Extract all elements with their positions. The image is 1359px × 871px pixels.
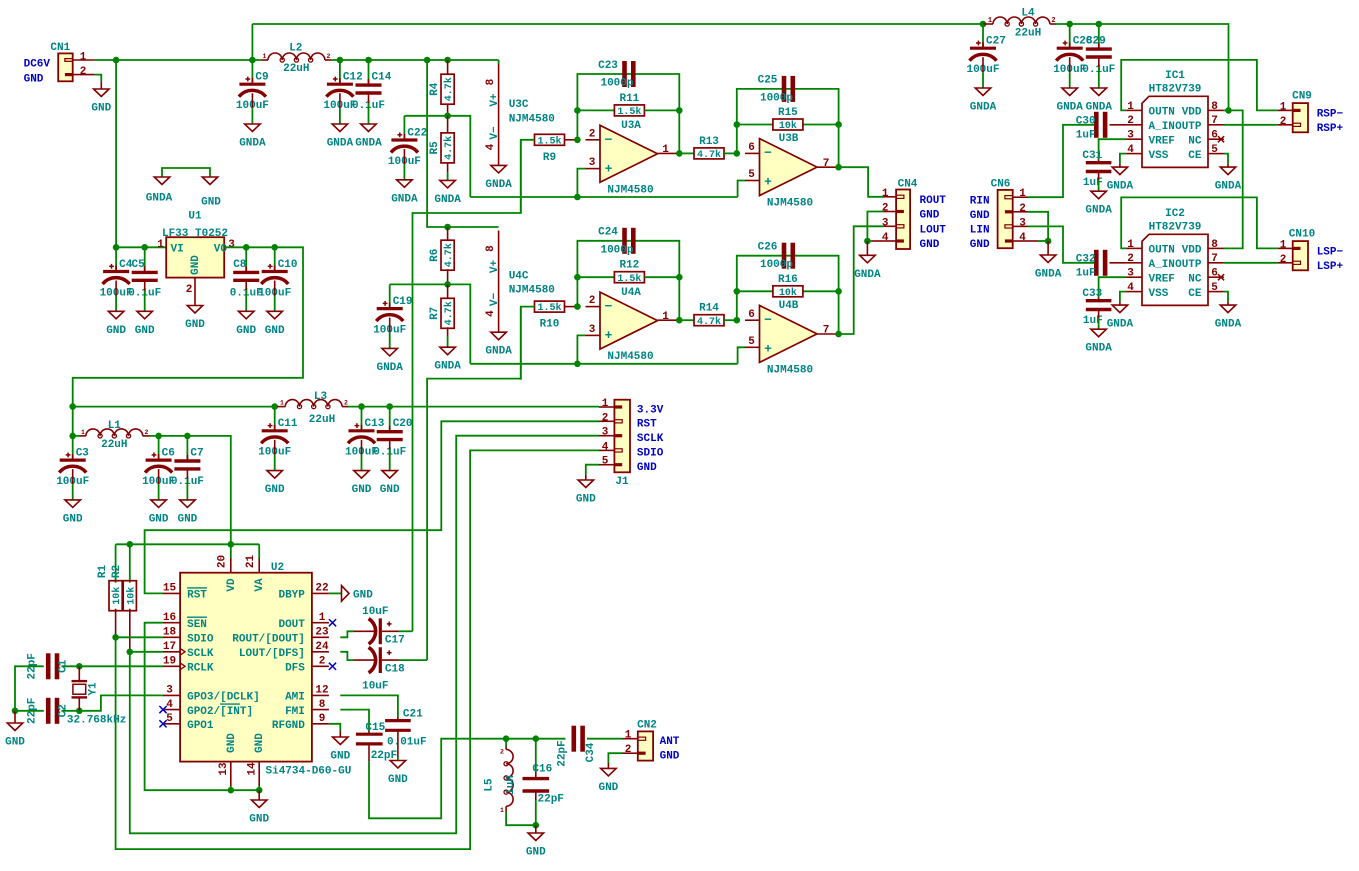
svg-text:SDIO: SDIO [637,448,664,460]
svg-text:J1: J1 [615,476,629,488]
svg-text:C23: C23 [598,60,618,72]
svg-text:GNDA: GNDA [1107,319,1134,331]
svg-text:C10: C10 [278,259,298,271]
svg-text:GND: GND [106,325,126,337]
svg-text:FMI: FMI [285,706,305,718]
svg-text:4: 4 [602,441,609,453]
svg-text:OUTN: OUTN [1149,245,1175,257]
svg-text:1.5k: 1.5k [537,135,561,147]
svg-text:C33: C33 [1082,288,1102,300]
svg-text:V+: V+ [489,260,501,274]
svg-text:6: 6 [1211,268,1218,280]
svg-text:2: 2 [344,400,348,407]
svg-text:R16: R16 [778,274,798,286]
svg-text:GNDA: GNDA [854,269,881,281]
svg-text:GND: GND [380,484,400,496]
svg-text:VI: VI [171,244,184,256]
svg-text:C9: C9 [255,72,268,84]
svg-text:+: + [764,342,772,357]
svg-text:U1: U1 [188,211,202,223]
svg-text:GND: GND [330,751,350,763]
svg-text:5: 5 [748,336,755,348]
svg-text:4: 4 [1127,144,1134,156]
svg-text:2: 2 [625,744,632,756]
svg-text:GND: GND [177,513,197,525]
svg-text:U2: U2 [271,562,284,574]
svg-text:10uF: 10uF [362,606,388,618]
svg-text:C7: C7 [190,447,203,459]
svg-text:VREF: VREF [1149,273,1175,285]
svg-text:1: 1 [157,239,164,251]
svg-text:LOUT/[DFS]: LOUT/[DFS] [239,648,305,660]
svg-text:R2: R2 [111,565,123,578]
svg-text:GNDA: GNDA [485,179,512,191]
svg-text:6: 6 [748,309,755,321]
svg-text:C15: C15 [365,722,385,734]
svg-text:GND: GND [24,73,44,85]
svg-text:GND: GND [236,325,256,337]
svg-text:GND: GND [149,513,169,525]
svg-text:L3: L3 [314,391,328,403]
svg-text:10k: 10k [111,587,123,605]
svg-text:GND: GND [249,814,269,826]
svg-text:HT82V739: HT82V739 [1149,221,1202,233]
svg-text:1.5k: 1.5k [537,302,561,314]
svg-text:GNDA: GNDA [1086,102,1113,114]
svg-text:C17: C17 [385,635,405,647]
svg-text:DC6V: DC6V [24,59,51,71]
svg-text:GND: GND [920,210,940,222]
svg-text:NJM4580: NJM4580 [767,198,813,210]
svg-text:C13: C13 [365,418,385,430]
svg-text:1: 1 [319,612,326,624]
svg-text:HT82V739: HT82V739 [1149,83,1202,95]
svg-text:+: + [764,175,772,190]
svg-text:C21: C21 [403,709,423,721]
svg-text:U4A: U4A [621,287,641,299]
svg-text:4.7k: 4.7k [697,149,721,161]
svg-text:VDD: VDD [1182,107,1202,119]
svg-text:GND: GND [63,513,83,525]
svg-text:8: 8 [1211,239,1218,251]
svg-text:NJM4580: NJM4580 [509,114,555,126]
svg-text:U3A: U3A [621,120,641,132]
svg-text:8: 8 [485,78,497,85]
svg-text:3: 3 [1127,268,1134,280]
svg-text:Si4734-D60-GU: Si4734-D60-GU [266,766,352,778]
svg-text:1000p: 1000p [760,259,793,271]
svg-text:10uF: 10uF [362,681,388,693]
svg-text:A_IN: A_IN [1149,121,1175,133]
svg-text:8: 8 [1211,101,1218,113]
svg-text:GND: GND [352,484,372,496]
svg-text:3: 3 [882,217,889,229]
svg-text:C6: C6 [162,447,175,459]
svg-text:1.5k: 1.5k [617,273,641,285]
svg-text:R7: R7 [429,307,441,320]
svg-text:GND: GND [576,494,596,506]
svg-text:GND: GND [190,255,202,275]
svg-text:GPO2/[INT]: GPO2/[INT] [187,706,253,718]
svg-text:U3C: U3C [509,99,529,111]
svg-text:1000p: 1000p [760,92,793,104]
svg-text:22uH: 22uH [283,63,309,75]
svg-text:1uF: 1uF [1083,315,1103,327]
svg-text:1000p: 1000p [600,244,633,256]
svg-text:GND: GND [201,197,221,209]
svg-text:2: 2 [589,128,596,140]
svg-text:2: 2 [1280,116,1287,128]
svg-text:DFS: DFS [285,663,305,675]
svg-text:U4C: U4C [509,271,529,283]
svg-text:C24: C24 [598,227,618,239]
svg-text:7: 7 [1211,253,1218,265]
svg-text:4.7k: 4.7k [443,243,455,267]
svg-text:1: 1 [263,53,267,60]
svg-text:V+: V+ [489,93,501,107]
svg-text:2: 2 [319,656,326,668]
svg-text:1.5k: 1.5k [617,106,641,118]
svg-text:22pF: 22pF [538,794,564,806]
svg-text:L1: L1 [108,420,122,432]
svg-text:4: 4 [1127,282,1134,294]
svg-text:2: 2 [145,429,149,436]
svg-text:ANT: ANT [660,736,680,748]
svg-text:5: 5 [1211,144,1218,156]
svg-text:22uH: 22uH [101,439,127,451]
svg-text:R15: R15 [778,107,798,119]
svg-text:GNDA: GNDA [376,362,403,374]
svg-text:1: 1 [602,398,609,410]
svg-text:1: 1 [1280,101,1287,113]
svg-text:GND: GND [226,733,238,753]
svg-text:2: 2 [80,66,87,78]
svg-text:GND: GND [637,462,657,474]
svg-text:5: 5 [748,169,755,181]
svg-text:GNDA: GNDA [355,138,382,150]
svg-text:7: 7 [1211,115,1218,127]
svg-text:GNDA: GNDA [239,138,266,150]
svg-text:1uF: 1uF [1076,130,1096,142]
svg-text:2: 2 [1051,17,1055,25]
svg-text:1: 1 [988,17,992,25]
svg-text:U3B: U3B [779,133,799,145]
svg-text:GND: GND [970,210,990,222]
svg-text:1: 1 [1127,239,1134,251]
svg-text:C5: C5 [132,259,146,271]
svg-text:RFGND: RFGND [272,720,305,732]
svg-text:R11: R11 [619,93,639,105]
svg-text:GNDA: GNDA [146,193,173,205]
svg-text:8: 8 [485,245,497,252]
svg-text:20: 20 [217,555,229,568]
svg-text:CN2: CN2 [637,720,657,732]
svg-text:3.3V: 3.3V [637,404,664,416]
svg-text:V−: V− [489,293,501,307]
svg-text:4.7k: 4.7k [443,136,455,160]
svg-text:GND: GND [135,325,155,337]
svg-text:4: 4 [166,699,173,711]
svg-text:LSP−: LSP− [1317,246,1344,258]
svg-text:2: 2 [1127,253,1134,265]
svg-text:GNDA: GNDA [1056,102,1083,114]
svg-text:23: 23 [315,627,329,639]
svg-text:1: 1 [500,807,504,814]
svg-text:LOUT: LOUT [920,225,947,237]
svg-text:GND: GND [920,239,940,251]
svg-text:1: 1 [1127,101,1134,113]
svg-text:NJM4580: NJM4580 [509,285,555,297]
svg-text:GND: GND [598,782,618,794]
svg-text:NJM4580: NJM4580 [607,184,653,196]
svg-text:16: 16 [163,612,176,624]
svg-text:RIN: RIN [970,195,990,207]
svg-text:VD: VD [226,578,238,592]
svg-text:4.7k: 4.7k [443,77,455,101]
svg-text:GNDA: GNDA [327,138,354,150]
svg-text:22uH: 22uH [1015,28,1041,40]
svg-text:18: 18 [163,627,177,639]
svg-text:IC1: IC1 [1165,70,1185,82]
svg-text:1: 1 [280,400,284,407]
svg-text:VREF: VREF [1149,135,1175,147]
svg-text:GNDA: GNDA [1215,181,1242,193]
svg-text:3: 3 [166,685,173,697]
svg-text:1: 1 [625,730,632,742]
svg-text:VSS: VSS [1149,288,1169,300]
svg-text:CN4: CN4 [898,179,918,191]
svg-text:ROUT/[DOUT]: ROUT/[DOUT] [232,634,305,646]
svg-text:1: 1 [81,429,85,436]
svg-text:VDD: VDD [1182,245,1202,257]
svg-text:19: 19 [163,656,176,668]
svg-text:R1: R1 [97,565,109,579]
svg-text:R12: R12 [619,260,639,272]
svg-text:2: 2 [1280,254,1287,266]
svg-text:GNDA: GNDA [391,193,418,205]
svg-text:2: 2 [500,749,504,756]
svg-text:LSP+: LSP+ [1317,261,1344,273]
svg-text:3: 3 [1127,130,1134,142]
svg-text:Y1: Y1 [88,682,100,696]
svg-text:13: 13 [218,762,230,776]
svg-text:4: 4 [882,232,889,244]
svg-text:U4B: U4B [779,300,799,312]
svg-text:C18: C18 [385,664,405,676]
svg-text:SEN: SEN [187,619,207,631]
svg-text:10k: 10k [779,120,797,132]
svg-text:R5: R5 [429,141,441,155]
svg-text:RST: RST [187,590,207,602]
svg-text:0.01uF: 0.01uF [387,737,427,749]
svg-text:NC: NC [1188,135,1202,147]
svg-text:1: 1 [1280,239,1287,251]
svg-text:GND: GND [526,847,546,859]
svg-text:GND: GND [265,325,285,337]
svg-text:R9: R9 [543,152,556,164]
svg-text:GNDA: GNDA [970,102,997,114]
svg-text:C8: C8 [233,259,247,271]
svg-text:GND: GND [353,589,373,601]
svg-text:12: 12 [315,685,328,697]
svg-text:22: 22 [315,583,328,595]
svg-text:+: + [605,328,613,343]
svg-text:1: 1 [80,51,87,63]
svg-text:CE: CE [1188,288,1202,300]
svg-text:15: 15 [163,583,177,595]
svg-text:CN9: CN9 [1292,91,1312,103]
svg-text:5: 5 [166,713,173,725]
svg-text:−: − [764,146,772,161]
svg-text:NJM4580: NJM4580 [607,351,653,363]
svg-text:C27: C27 [986,36,1006,48]
svg-text:VSS: VSS [1149,150,1169,162]
svg-text:3: 3 [228,239,235,251]
svg-text:4: 4 [1019,232,1026,244]
svg-text:GND: GND [91,103,111,115]
svg-text:GND: GND [185,319,205,331]
svg-text:1000p: 1000p [600,78,633,90]
svg-text:C19: C19 [393,296,413,308]
svg-text:GND: GND [265,484,285,496]
svg-text:6: 6 [1211,130,1218,142]
svg-text:1: 1 [882,188,889,200]
svg-text:RST: RST [637,419,657,431]
svg-text:GPO1: GPO1 [187,720,214,732]
svg-text:C22: C22 [407,127,427,139]
svg-text:SCLK: SCLK [637,433,664,445]
svg-text:DBYP: DBYP [278,590,305,602]
svg-text:R14: R14 [699,303,719,315]
svg-text:GNDA: GNDA [1035,269,1062,281]
svg-text:NJM4580: NJM4580 [767,364,813,376]
svg-text:L5: L5 [484,778,496,792]
svg-text:CN6: CN6 [991,178,1011,190]
svg-text:C34: C34 [585,742,597,762]
svg-text:4: 4 [485,143,497,150]
svg-text:GNDA: GNDA [1085,205,1112,217]
svg-text:5: 5 [1211,282,1218,294]
svg-text:7: 7 [823,158,830,170]
svg-text:1: 1 [662,311,669,323]
svg-text:L4: L4 [1021,8,1035,20]
svg-text:1uH: 1uH [505,775,517,795]
svg-text:LF33_T0252: LF33_T0252 [162,228,228,240]
svg-text:V−: V− [489,126,501,140]
svg-text:3: 3 [1019,217,1026,229]
svg-text:GNDA: GNDA [485,346,512,358]
svg-text:GND: GND [5,737,25,749]
svg-text:R6: R6 [429,249,441,262]
svg-text:VA: VA [254,578,266,592]
svg-text:22pF: 22pF [557,740,569,766]
svg-text:−: − [764,313,772,328]
svg-text:A_IN: A_IN [1149,259,1175,271]
svg-text:CE: CE [1188,150,1202,162]
svg-text:32.768kHz: 32.768kHz [67,715,126,727]
svg-text:NC: NC [1188,273,1202,285]
svg-text:+: + [605,161,613,176]
svg-text:GPO3/[DCLK]: GPO3/[DCLK] [187,692,260,704]
svg-text:RSP+: RSP+ [1317,123,1344,135]
svg-text:SCLK: SCLK [187,648,214,660]
svg-text:22pF: 22pF [371,750,397,762]
svg-text:4.7k: 4.7k [443,301,455,325]
svg-text:IC2: IC2 [1165,208,1185,220]
svg-text:GNDA: GNDA [1215,319,1242,331]
svg-text:C20: C20 [393,418,413,430]
svg-text:C26: C26 [758,242,778,254]
svg-text:GND: GND [388,774,408,786]
svg-text:GNDA: GNDA [434,361,461,373]
svg-text:2: 2 [1019,203,1026,215]
svg-text:10k: 10k [125,587,137,605]
svg-text:OUTP: OUTP [1175,259,1202,271]
svg-text:OUTN: OUTN [1149,107,1175,119]
svg-text:GNDA: GNDA [1107,181,1134,193]
svg-text:CN10: CN10 [1289,229,1315,241]
svg-text:C16: C16 [532,764,552,776]
svg-text:4.7k: 4.7k [697,316,721,328]
svg-text:2: 2 [602,412,609,424]
svg-text:VO: VO [214,244,228,256]
svg-text:2: 2 [882,203,889,215]
svg-text:LIN: LIN [970,225,990,237]
svg-text:R4: R4 [429,82,441,96]
svg-text:SDIO: SDIO [187,634,214,646]
svg-text:C11: C11 [278,418,298,430]
svg-text:1: 1 [1019,188,1026,200]
svg-text:L2: L2 [289,43,302,55]
svg-text:C3: C3 [76,447,90,459]
svg-text:DOUT: DOUT [278,619,305,631]
svg-text:2: 2 [327,53,331,60]
svg-text:3: 3 [589,157,596,169]
svg-text:3: 3 [602,427,609,439]
svg-text:C25: C25 [758,75,778,87]
svg-text:3: 3 [589,324,596,336]
svg-text:9: 9 [319,713,326,725]
svg-text:8: 8 [319,699,326,711]
svg-text:AMI: AMI [285,692,305,704]
svg-text:6: 6 [748,142,755,154]
svg-text:R13: R13 [699,136,719,148]
svg-text:C14: C14 [372,72,392,84]
svg-text:RCLK: RCLK [187,663,214,675]
svg-text:2: 2 [1127,115,1134,127]
svg-text:GNDA: GNDA [1085,343,1112,355]
svg-text:−: − [605,132,613,147]
svg-text:2: 2 [186,284,193,296]
svg-text:5: 5 [602,456,609,468]
svg-text:1uF: 1uF [1083,177,1103,189]
svg-text:10k: 10k [779,287,797,299]
svg-text:17: 17 [163,641,176,653]
svg-text:RSP−: RSP− [1317,108,1344,120]
svg-text:24: 24 [315,641,329,653]
svg-text:4: 4 [485,310,497,317]
svg-text:1uF: 1uF [1076,268,1096,280]
svg-text:GND: GND [970,239,990,251]
svg-text:14: 14 [246,762,258,776]
svg-text:C31: C31 [1082,150,1102,162]
svg-text:R10: R10 [540,319,560,331]
svg-text:GND: GND [254,733,266,753]
svg-text:22uH: 22uH [309,414,335,426]
svg-text:GND: GND [660,751,680,763]
svg-text:C12: C12 [343,72,363,84]
svg-text:C29: C29 [1086,36,1106,48]
